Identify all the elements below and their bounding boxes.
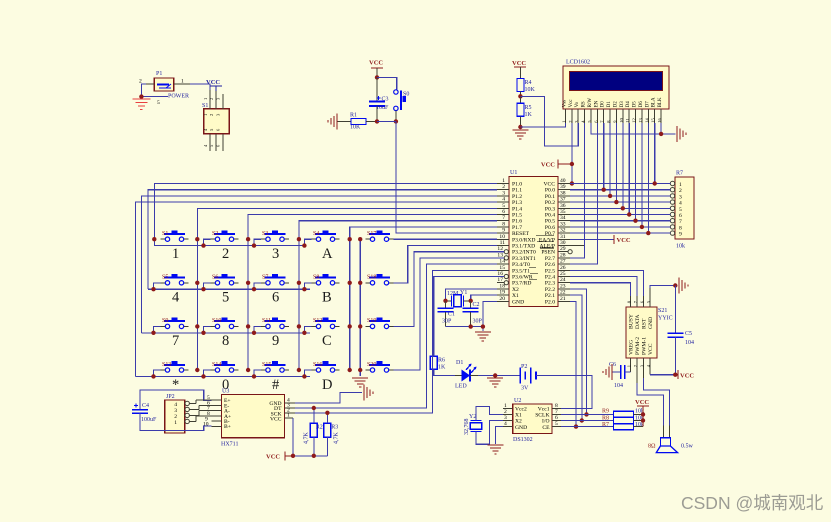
- svg-text:22: 22: [560, 290, 566, 296]
- svg-text:27: 27: [560, 259, 566, 265]
- svg-text:6: 6: [679, 213, 682, 219]
- svg-text:12M: 12M: [447, 291, 459, 297]
- JP2 pin circles: [185, 401, 189, 423]
- svg-text:4: 4: [504, 421, 507, 427]
- node R4/R5 (Vo): [518, 94, 522, 98]
- ground below U1: [475, 332, 491, 341]
- wire fan U1 pin1 to keypad row1: [154, 184, 497, 240]
- svg-text:P1.5: P1.5: [512, 213, 522, 219]
- svg-text:B: B: [322, 290, 332, 306]
- node gnd/C5: [673, 283, 677, 287]
- switch S6: [211, 274, 239, 285]
- svg-text:14: 14: [499, 259, 505, 265]
- svg-text:D2: D2: [613, 101, 618, 108]
- svg-text:3: 3: [502, 190, 505, 196]
- svg-text:R7: R7: [602, 422, 609, 428]
- svg-text:7: 7: [679, 219, 682, 225]
- switch S2: [211, 230, 239, 241]
- wire R6 bottom to LED: [434, 369, 455, 375]
- IC U3 HX711: [221, 389, 284, 448]
- wire fan U1 pin8 to keypad col5: [350, 227, 497, 370]
- svg-text:GND: GND: [648, 317, 654, 329]
- ground between LED and battery: [487, 378, 503, 387]
- svg-text:40: 40: [560, 178, 566, 184]
- svg-text:1: 1: [679, 182, 682, 188]
- wire VCC node to S0: [377, 77, 397, 89]
- svg-text:P2.4: P2.4: [545, 275, 555, 281]
- U3 right pin stubs: [284, 403, 295, 418]
- header JP2: [165, 394, 185, 433]
- svg-text:HX711: HX711: [221, 442, 238, 448]
- wire fan U1 pin3 to keypad row3: [141, 196, 497, 333]
- svg-text:1: 1: [504, 403, 507, 409]
- node CE junction: [574, 424, 578, 428]
- svg-text:28: 28: [560, 252, 566, 258]
- wire P0.5 row to R7 pin7: [570, 220, 670, 222]
- svg-text:R1: R1: [350, 113, 357, 119]
- ground below U2: [488, 445, 504, 454]
- svg-text:9: 9: [502, 228, 505, 234]
- node I/O junction: [580, 418, 584, 422]
- svg-text:D0: D0: [601, 101, 606, 108]
- svg-text:16: 16: [657, 117, 662, 122]
- node SCLK junction: [584, 412, 588, 416]
- svg-text:S12: S12: [313, 318, 322, 324]
- switch S3: [261, 230, 289, 241]
- svg-text:11: 11: [500, 240, 506, 246]
- svg-text:P2.7: P2.7: [545, 256, 555, 262]
- wire U1 P2.3 to S21 BUSY: [570, 283, 631, 296]
- svg-text:14: 14: [644, 117, 649, 122]
- svg-text:32,768: 32,768: [464, 419, 470, 436]
- svg-text:30P: 30P: [442, 319, 452, 325]
- svg-text:Vo: Vo: [575, 101, 580, 107]
- capacitor C6 104: [609, 362, 631, 389]
- svg-text:D7: D7: [645, 101, 650, 108]
- node D6/P0.6: [640, 225, 644, 229]
- svg-text:10: 10: [499, 234, 505, 240]
- S1 pin number marks: [203, 97, 221, 147]
- S21 bottom pin names (rotated): [628, 337, 654, 355]
- wire VCC row pin40 to R7 pin1: [570, 183, 670, 185]
- svg-text:I/O: I/O: [542, 419, 549, 425]
- svg-text:2: 2: [679, 188, 682, 194]
- svg-text:10K: 10K: [525, 87, 536, 93]
- node Y1 left: [443, 299, 447, 303]
- VCC top middle: [369, 60, 383, 78]
- svg-text:9: 9: [272, 333, 279, 349]
- svg-text:GND: GND: [515, 425, 527, 431]
- svg-text:1: 1: [562, 120, 567, 122]
- svg-text:P3.5/T1: P3.5/T1: [512, 268, 530, 274]
- node LED/battery ground: [493, 373, 497, 377]
- keypad row4 bus: [135, 375, 310, 377]
- switch S11: [261, 318, 289, 329]
- svg-text:D4: D4: [626, 101, 631, 108]
- svg-text:8Ω: 8Ω: [648, 444, 656, 450]
- U1 pin12/13/16/17 inversion circles: [504, 250, 508, 285]
- svg-text:P3.2/INT0: P3.2/INT0: [512, 250, 536, 256]
- svg-text:8: 8: [679, 225, 682, 231]
- keypad row3 bus: [141, 332, 310, 334]
- svg-text:P3.7/RD: P3.7/RD: [512, 281, 531, 287]
- VCC symbol left of U1 pin40: [541, 160, 572, 169]
- svg-text:10uF: 10uF: [376, 105, 389, 111]
- ground left of C6: [603, 364, 612, 380]
- svg-text:P0.0: P0.0: [545, 188, 555, 194]
- keypad row2 bus: [148, 288, 310, 290]
- svg-text:7: 7: [172, 333, 179, 349]
- svg-text:32: 32: [560, 228, 566, 234]
- op: U1 8051 MCU: [509, 170, 558, 307]
- overbars on active-low pin names: [529, 236, 554, 280]
- capacitor C5 104: [667, 286, 694, 375]
- svg-text:20: 20: [499, 296, 505, 302]
- U3 right pin names: [269, 401, 282, 423]
- wire U1 P2.5 to S21 RST: [570, 270, 644, 296]
- S17-S20 common ground column: [359, 239, 361, 376]
- wire R1 node to S0 node: [377, 120, 396, 122]
- wire C4 loop top: [140, 390, 212, 409]
- keypad row1 bus: [154, 239, 304, 245]
- svg-text:VCC: VCC: [635, 399, 649, 406]
- svg-text:DS1302: DS1302: [513, 437, 533, 443]
- svg-text:VCC: VCC: [369, 60, 383, 67]
- svg-text:VCC: VCC: [543, 182, 555, 188]
- svg-text:EA/VP: EA/VP: [539, 237, 555, 243]
- wire P1 pin2 to ground: [146, 83, 154, 85]
- resistor R8 10k: [561, 416, 644, 424]
- resistor R9 10k: [561, 409, 644, 418]
- svg-text:21: 21: [560, 296, 566, 302]
- svg-text:P1.6: P1.6: [512, 219, 522, 225]
- wire U3 VCC rail: [293, 418, 327, 456]
- svg-text:30: 30: [560, 240, 566, 246]
- wire Y2 to U2 X2: [476, 421, 503, 445]
- wire R6 top to U1 pin16: [434, 277, 504, 357]
- svg-text:7: 7: [502, 215, 505, 221]
- node D4/P0.4: [627, 212, 631, 216]
- wire LCD BLA drop to VCC row: [654, 123, 656, 184]
- connector P1 POWER: [139, 71, 189, 106]
- svg-text:P1.1: P1.1: [512, 188, 522, 194]
- svg-text:P0.5: P0.5: [545, 219, 555, 225]
- svg-text:S8: S8: [313, 275, 319, 281]
- svg-text:Vcc2: Vcc2: [515, 407, 527, 413]
- svg-text:2: 2: [222, 246, 229, 262]
- wire fan U1 pin7 to keypad col4: [299, 221, 497, 370]
- connector S1 (self-lock switch): [202, 103, 229, 134]
- node D5/P0.5: [633, 219, 637, 223]
- U3 left pin names: [224, 398, 231, 430]
- svg-text:R2: R2: [316, 425, 323, 431]
- svg-text:RS: RS: [582, 101, 587, 107]
- svg-text:6: 6: [555, 415, 558, 421]
- VCC at U1 EA pin31: [570, 235, 631, 244]
- VCC above pull-ups: [635, 399, 649, 427]
- svg-text:3V: 3V: [521, 386, 529, 392]
- svg-text:1: 1: [502, 178, 505, 184]
- switch S14: [211, 361, 239, 372]
- svg-text:17: 17: [497, 277, 503, 283]
- svg-text:6: 6: [502, 209, 505, 215]
- svg-text:S20: S20: [367, 362, 376, 368]
- svg-text:104: 104: [685, 340, 694, 346]
- svg-text:8: 8: [502, 221, 505, 227]
- switch S17: [366, 230, 394, 241]
- wire S18 to U1 pin11: [394, 246, 498, 283]
- node VCC on LCD Vcc drop: [570, 162, 574, 166]
- svg-text:S6: S6: [212, 275, 218, 281]
- svg-text:X1: X1: [515, 413, 522, 419]
- svg-text:P1.0: P1.0: [512, 182, 522, 188]
- svg-text:S19: S19: [367, 318, 376, 324]
- svg-text:X2: X2: [515, 419, 522, 425]
- wire LCD D2 drop: [615, 123, 617, 202]
- svg-text:D6: D6: [639, 101, 644, 108]
- svg-text:S1: S1: [202, 103, 208, 109]
- svg-text:100uF: 100uF: [141, 417, 157, 423]
- wire U1 X1 pin19 to Y1: [471, 295, 497, 301]
- svg-text:S1: S1: [162, 231, 168, 237]
- svg-text:RESET: RESET: [512, 231, 530, 237]
- wire S21 PWM-2 to speaker: [637, 383, 664, 425]
- capacitor C4 100uF: [132, 403, 157, 423]
- capacitor C1 30P: [438, 301, 456, 327]
- svg-text:2: 2: [504, 409, 507, 415]
- svg-text:POWER: POWER: [168, 94, 189, 100]
- svg-text:D5: D5: [633, 101, 638, 108]
- svg-text:VCC: VCC: [512, 60, 526, 67]
- svg-text:10K: 10K: [350, 125, 361, 131]
- svg-text:JP2: JP2: [166, 394, 175, 400]
- svg-text:S18: S18: [367, 275, 376, 281]
- svg-text:1K: 1K: [438, 365, 446, 371]
- wire S19 to U1 pin12: [394, 252, 505, 327]
- svg-text:ALE/P: ALE/P: [539, 244, 555, 250]
- svg-text:C4: C4: [142, 403, 149, 409]
- wire U1 P2.0 to U2 CE: [561, 301, 576, 426]
- wire battery to DS1302 Vcc1: [536, 376, 592, 409]
- svg-text:38: 38: [560, 190, 566, 196]
- svg-text:4,7K: 4,7K: [304, 432, 310, 445]
- S21 bottom pin stubs: [631, 358, 651, 383]
- wire Y2 to U2 X1: [476, 407, 503, 421]
- wire P0.1 row to R7 pin3: [570, 195, 670, 197]
- node D2/P0.2: [614, 200, 618, 204]
- wire reset net down to U1 pin9: [396, 121, 497, 233]
- switch S18: [366, 274, 394, 285]
- svg-text:Vcc1: Vcc1: [538, 407, 550, 413]
- svg-text:7: 7: [555, 409, 558, 415]
- wire fan U1 pin5 to keypad col2: [197, 208, 497, 370]
- svg-text:5: 5: [555, 421, 558, 427]
- svg-text:11: 11: [625, 118, 630, 122]
- svg-text:1: 1: [203, 114, 208, 116]
- svg-text:33: 33: [560, 221, 566, 227]
- switch S8: [312, 274, 340, 285]
- svg-text:35: 35: [560, 209, 566, 215]
- svg-text:S0: S0: [403, 92, 409, 98]
- svg-text:39: 39: [560, 184, 566, 190]
- svg-text:1: 1: [174, 420, 177, 426]
- svg-text:R8: R8: [602, 416, 609, 422]
- wire U2 GND to ground: [496, 427, 504, 444]
- resistor network R7 10k: [675, 171, 694, 250]
- svg-text:R/W: R/W: [588, 98, 593, 108]
- svg-text:R9: R9: [602, 409, 609, 415]
- svg-text:SCLK: SCLK: [535, 413, 549, 419]
- crystal Y1 12M: [446, 290, 471, 307]
- switch S1: [161, 230, 189, 241]
- svg-text:2: 2: [633, 365, 638, 367]
- svg-text:#: #: [272, 377, 279, 393]
- svg-text:S11: S11: [262, 318, 271, 324]
- wire fan U1 pin2 to keypad row2: [148, 190, 497, 290]
- switch S4: [312, 230, 340, 241]
- VCC below U3: [266, 451, 293, 460]
- svg-text:29: 29: [560, 246, 566, 252]
- svg-text:1: 1: [287, 413, 290, 419]
- svg-text:2: 2: [568, 120, 573, 122]
- svg-text:BUSY: BUSY: [628, 314, 634, 329]
- node D0/P0.0: [602, 188, 606, 192]
- U1 right pin stubs: [558, 184, 584, 302]
- svg-text:B+: B+: [224, 424, 231, 430]
- node R5/gnd/Vss: [518, 125, 522, 129]
- U1 left pin stubs: [497, 184, 509, 302]
- U3 left pin stubs: [189, 400, 221, 426]
- svg-text:10k: 10k: [676, 244, 685, 250]
- svg-text:P0.3: P0.3: [545, 206, 555, 212]
- U2 pin names: [515, 407, 527, 431]
- S1 pin wires: [210, 90, 223, 151]
- svg-text:P1: P1: [156, 71, 162, 77]
- svg-text:P3.1/TXD: P3.1/TXD: [512, 244, 535, 250]
- node C3/R1: [375, 119, 379, 123]
- svg-text:C2: C2: [473, 302, 480, 308]
- U2 pin stubs: [503, 408, 561, 426]
- svg-text:1K: 1K: [525, 112, 533, 118]
- svg-text:DATA: DATA: [635, 315, 641, 329]
- svg-text:36: 36: [560, 203, 566, 209]
- svg-text:3: 3: [679, 194, 682, 200]
- wire Vss: node R5 to LCD pin1: [520, 123, 565, 127]
- wire S17 to U1 pin10: [394, 238, 498, 240]
- U1 right pin numbers: [560, 178, 566, 302]
- svg-text:Vss: Vss: [563, 100, 568, 108]
- wire fan U1 pin6 to keypad col3: [248, 215, 497, 371]
- svg-text:2: 2: [209, 98, 214, 100]
- LCD pin stubs 1-16: [566, 109, 662, 123]
- wire U1 P2.4 to S21 DATA: [570, 277, 637, 297]
- svg-text:P0.6: P0.6: [545, 225, 555, 231]
- LCD1602 module: [563, 60, 669, 110]
- wire C4 loop bottom: [140, 413, 212, 430]
- svg-text:S9: S9: [162, 318, 168, 324]
- resistor R6 1K: [430, 356, 446, 370]
- svg-text:P2.3: P2.3: [545, 281, 555, 287]
- svg-text:26: 26: [560, 265, 566, 271]
- wire P0.6 row to R7 pin8: [570, 226, 670, 228]
- svg-text:CSDN @城南观北: CSDN @城南观北: [681, 493, 824, 513]
- svg-text:P0.1: P0.1: [545, 194, 555, 200]
- wire S21 GND to ground: [650, 286, 675, 289]
- svg-text:S5: S5: [162, 275, 168, 281]
- wire LCD R/W to backlight ground run: [591, 123, 661, 134]
- svg-text:1: 1: [627, 365, 632, 367]
- node BLK: [659, 132, 663, 136]
- svg-text:R4: R4: [525, 80, 532, 86]
- LCD pin numbers (rotated): [562, 117, 663, 122]
- svg-text:R3: R3: [331, 425, 338, 431]
- capacitor C2 30P: [463, 301, 483, 327]
- node R2/DT: [312, 406, 316, 410]
- svg-text:S14: S14: [212, 362, 221, 368]
- svg-text:10: 10: [619, 117, 624, 122]
- node R2 rail: [312, 454, 316, 458]
- svg-text:8: 8: [555, 403, 558, 409]
- svg-text:30P: 30P: [473, 319, 483, 325]
- svg-text:S13: S13: [162, 362, 171, 368]
- wire LCD D7 drop: [647, 123, 649, 233]
- svg-text:VCC: VCC: [680, 373, 694, 380]
- node Y1 right: [469, 299, 473, 303]
- svg-text:5: 5: [222, 290, 229, 306]
- svg-text:24: 24: [560, 277, 566, 283]
- svg-text:EN: EN: [594, 100, 599, 107]
- wire LCD D5 drop: [635, 123, 637, 221]
- svg-text:YYIC: YYIC: [658, 316, 673, 322]
- svg-text:LED: LED: [455, 384, 467, 390]
- svg-text:VREG: VREG: [628, 340, 634, 355]
- VCC right of S21: [675, 370, 694, 379]
- svg-text:C5: C5: [685, 331, 692, 337]
- capacitor C3 10uF: [369, 77, 389, 121]
- svg-text:Y2: Y2: [469, 414, 476, 420]
- svg-text:C1: C1: [448, 312, 455, 318]
- svg-text:5: 5: [679, 207, 682, 213]
- svg-text:LCD1602: LCD1602: [566, 60, 590, 66]
- svg-text:P2.5: P2.5: [545, 268, 555, 274]
- ground below R5: [512, 130, 528, 139]
- svg-text:VCC: VCC: [266, 454, 280, 461]
- ground right of S21: [679, 278, 688, 294]
- svg-text:BLK: BLK: [658, 97, 663, 107]
- node GND bus: [481, 324, 485, 328]
- wire P0.4 row to R7 pin6: [570, 214, 670, 216]
- svg-text:C3: C3: [382, 97, 389, 103]
- svg-text:5: 5: [502, 203, 505, 209]
- node D7/P0.7: [646, 231, 650, 235]
- svg-text:Vcc: Vcc: [569, 99, 574, 108]
- battery P2 3V: [520, 364, 536, 392]
- svg-text:S16: S16: [313, 362, 322, 368]
- S21 top pin names (rotated): [628, 314, 654, 329]
- svg-text:D1: D1: [456, 360, 463, 366]
- svg-text:P2: P2: [521, 364, 527, 370]
- node D1/P0.1: [608, 194, 612, 198]
- svg-text:37: 37: [560, 197, 566, 203]
- wire P0.3 row to R7 pin5: [570, 207, 670, 209]
- svg-text:1: 1: [172, 246, 179, 262]
- svg-text:P1.4: P1.4: [512, 206, 522, 212]
- resistor R5 1K: [517, 96, 533, 127]
- wire U3 SCK long to U1 pin15: [295, 270, 497, 413]
- wire S21 VCC pin to VCC: [650, 374, 675, 376]
- U1 left pin names: [512, 182, 536, 306]
- wire S20 to U1 pin13: [394, 258, 505, 370]
